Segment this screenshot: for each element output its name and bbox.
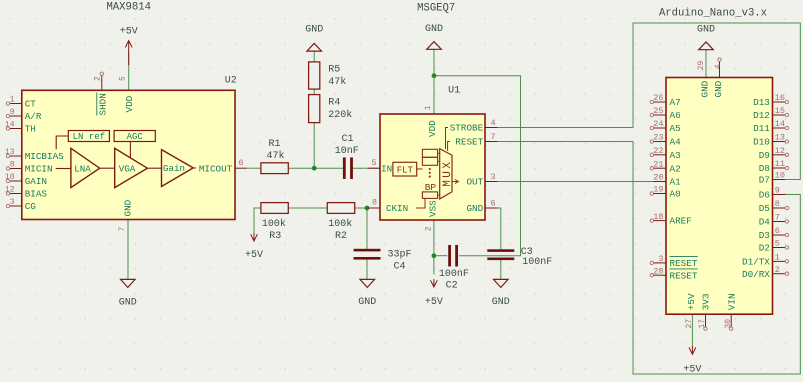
svg-text:6: 6 <box>238 158 243 168</box>
svg-text:VDD: VDD <box>427 120 438 137</box>
svg-text:14: 14 <box>5 120 15 129</box>
svg-text:D5: D5 <box>759 203 770 214</box>
svg-text:27: 27 <box>685 319 694 329</box>
svg-text:1: 1 <box>10 95 15 104</box>
svg-text:10: 10 <box>775 171 785 181</box>
svg-text:1: 1 <box>424 105 433 110</box>
svg-text:MUX: MUX <box>442 159 454 186</box>
svg-text:4: 4 <box>714 64 723 69</box>
svg-text:GND: GND <box>358 297 376 308</box>
svg-text:29: 29 <box>697 60 706 70</box>
svg-text:D7: D7 <box>759 175 770 186</box>
svg-text:26: 26 <box>653 93 663 103</box>
svg-text:Arduino_Nano_v3.x: Arduino_Nano_v3.x <box>659 8 767 20</box>
svg-text:220k: 220k <box>328 109 352 121</box>
svg-text:10: 10 <box>5 173 15 182</box>
svg-text:GND: GND <box>425 24 443 35</box>
svg-text:D11: D11 <box>753 123 770 134</box>
svg-text:AGC: AGC <box>127 132 144 142</box>
svg-text:+5V: +5V <box>120 27 138 38</box>
svg-text:5: 5 <box>775 239 780 249</box>
svg-text:22: 22 <box>653 146 663 156</box>
svg-text:D4: D4 <box>759 217 771 228</box>
svg-text:3V3: 3V3 <box>701 293 712 310</box>
svg-text:9: 9 <box>775 186 780 196</box>
svg-text:5: 5 <box>371 158 376 168</box>
svg-text:D2: D2 <box>759 243 770 254</box>
svg-text:25: 25 <box>653 106 663 116</box>
svg-text:+5V: +5V <box>683 365 701 376</box>
svg-text:+5V: +5V <box>686 293 697 310</box>
svg-text:100k: 100k <box>262 218 286 230</box>
svg-text:15: 15 <box>775 106 785 116</box>
svg-text:VIN: VIN <box>726 293 737 310</box>
svg-text:A2: A2 <box>670 163 681 174</box>
svg-text:R4: R4 <box>328 97 340 108</box>
svg-text:100k: 100k <box>328 218 352 230</box>
svg-text:D10: D10 <box>753 137 770 148</box>
svg-text:GAIN: GAIN <box>25 176 47 187</box>
svg-text:3: 3 <box>10 198 15 207</box>
svg-text:21: 21 <box>653 159 663 169</box>
svg-text:D1/TX: D1/TX <box>742 257 770 268</box>
svg-text:R2: R2 <box>335 231 347 242</box>
svg-text:D8: D8 <box>759 163 770 174</box>
svg-text:VDD: VDD <box>124 95 135 112</box>
svg-text:D12: D12 <box>753 110 770 121</box>
svg-text:100nF: 100nF <box>522 257 552 268</box>
svg-text:GND: GND <box>466 203 483 214</box>
svg-text:GND: GND <box>699 80 710 97</box>
svg-text:SHDN: SHDN <box>97 93 108 115</box>
svg-text:+5V: +5V <box>425 297 443 308</box>
svg-text:18: 18 <box>653 212 663 222</box>
svg-text:14: 14 <box>775 119 785 129</box>
svg-text:MAX9814: MAX9814 <box>106 2 151 14</box>
svg-text:2: 2 <box>775 265 780 275</box>
svg-text:STROBE: STROBE <box>450 123 484 134</box>
svg-text:MICIN: MICIN <box>25 164 53 175</box>
svg-text:MICBIAS: MICBIAS <box>25 151 64 162</box>
svg-text:30: 30 <box>724 319 733 329</box>
svg-text:11: 11 <box>775 159 785 169</box>
svg-text:GND: GND <box>119 297 137 308</box>
svg-text:GND: GND <box>122 199 133 216</box>
svg-text:2: 2 <box>425 226 434 231</box>
svg-text:3: 3 <box>658 254 663 264</box>
svg-text:6: 6 <box>775 226 780 236</box>
svg-text:LN ref: LN ref <box>73 132 105 142</box>
svg-text:BIAS: BIAS <box>25 189 48 200</box>
svg-text:FLT: FLT <box>397 165 414 175</box>
svg-text:AREF: AREF <box>670 216 692 227</box>
svg-text:A7: A7 <box>670 97 681 108</box>
svg-text:RESET: RESET <box>670 270 698 281</box>
svg-text:RESET: RESET <box>455 137 483 148</box>
svg-text:C2: C2 <box>446 281 458 292</box>
svg-text:5: 5 <box>118 76 127 81</box>
svg-text:C4: C4 <box>393 262 405 273</box>
svg-text:7: 7 <box>775 213 780 223</box>
svg-text:7: 7 <box>118 227 127 232</box>
svg-text:24: 24 <box>653 119 663 129</box>
svg-text:47k: 47k <box>266 150 284 162</box>
svg-text:2: 2 <box>94 76 103 81</box>
svg-text:3: 3 <box>491 172 496 182</box>
svg-text:A/R: A/R <box>25 111 42 122</box>
svg-text:28: 28 <box>653 266 663 276</box>
svg-text:16: 16 <box>775 93 785 103</box>
svg-text:A1: A1 <box>670 177 682 188</box>
svg-text:8: 8 <box>10 160 15 169</box>
svg-text:D0/RX: D0/RX <box>742 269 770 280</box>
svg-text:D9: D9 <box>759 150 770 161</box>
svg-text:1: 1 <box>775 253 780 263</box>
svg-text:U2: U2 <box>225 76 237 87</box>
svg-text:R1: R1 <box>268 139 280 150</box>
svg-text:MSGEQ7: MSGEQ7 <box>417 3 455 15</box>
svg-text:TH: TH <box>25 124 36 135</box>
svg-text:8: 8 <box>372 198 377 208</box>
svg-text:17: 17 <box>698 319 707 329</box>
svg-text:A4: A4 <box>670 137 682 148</box>
svg-text:A5: A5 <box>670 123 681 134</box>
svg-text:4: 4 <box>491 118 496 128</box>
svg-text:13: 13 <box>5 148 15 157</box>
svg-text:6: 6 <box>491 198 496 208</box>
svg-text:13: 13 <box>775 133 785 143</box>
svg-text:23: 23 <box>653 133 663 143</box>
svg-text:10nF: 10nF <box>335 146 359 157</box>
svg-text:GND: GND <box>713 80 724 97</box>
svg-text:D3: D3 <box>759 230 770 241</box>
svg-text:7: 7 <box>491 132 496 142</box>
svg-text:D13: D13 <box>753 97 770 108</box>
svg-text:47k: 47k <box>328 76 346 88</box>
svg-text:12: 12 <box>775 146 785 156</box>
svg-text:OUT: OUT <box>466 177 483 188</box>
svg-text:GND: GND <box>305 25 323 36</box>
svg-text:VGA: VGA <box>119 163 136 174</box>
svg-text:19: 19 <box>653 185 663 195</box>
svg-text:MICOUT: MICOUT <box>199 163 233 174</box>
svg-text:A6: A6 <box>670 110 681 121</box>
svg-text:CKIN: CKIN <box>386 203 408 214</box>
svg-text:BP: BP <box>425 182 437 193</box>
svg-text:RESET: RESET <box>670 258 698 269</box>
svg-text:VSS: VSS <box>427 200 438 217</box>
svg-text:R3: R3 <box>269 231 281 242</box>
svg-text:GND: GND <box>697 25 715 36</box>
svg-text:A3: A3 <box>670 150 681 161</box>
svg-text:Gain: Gain <box>163 163 185 174</box>
svg-text:U1: U1 <box>448 86 460 97</box>
svg-text:R5: R5 <box>328 65 340 76</box>
svg-text:A0: A0 <box>670 189 681 200</box>
svg-text:33pF: 33pF <box>387 250 411 261</box>
svg-text:D6: D6 <box>759 190 770 201</box>
svg-text:LNA: LNA <box>74 163 91 174</box>
svg-text:GND: GND <box>492 297 510 308</box>
svg-text:9: 9 <box>10 108 15 117</box>
svg-text:CT: CT <box>25 99 37 110</box>
svg-text:8: 8 <box>775 199 780 209</box>
svg-text:12: 12 <box>5 185 15 194</box>
svg-text:+5V: +5V <box>245 250 263 261</box>
svg-text:100nF: 100nF <box>439 269 469 280</box>
svg-text:IN: IN <box>381 163 392 174</box>
svg-text:C1: C1 <box>341 134 353 145</box>
svg-text:CG: CG <box>25 201 36 212</box>
svg-text:20: 20 <box>653 173 663 183</box>
